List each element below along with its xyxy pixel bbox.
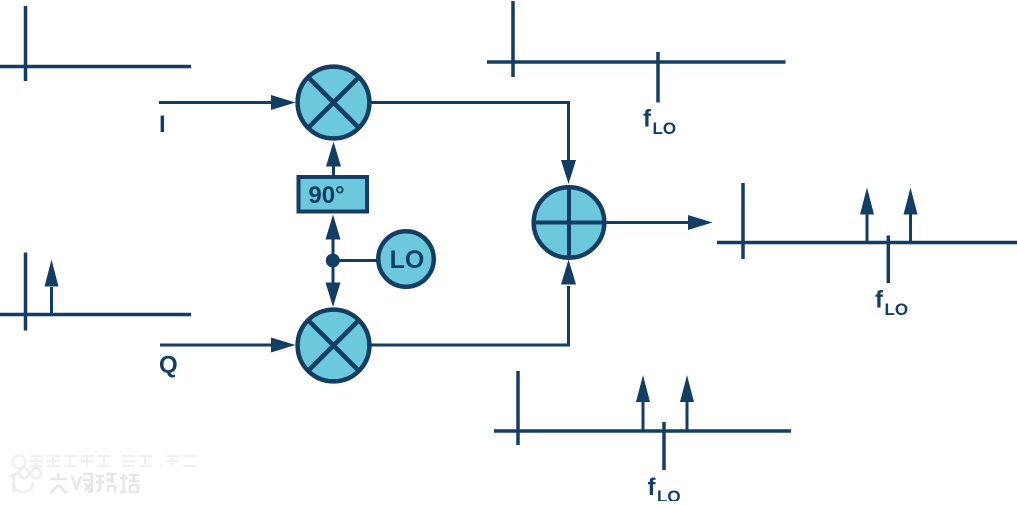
wire: junction to 90-box stem — [332, 239, 335, 261]
arrowhead: up into summer bottom — [561, 260, 576, 285]
arrowhead: down into mixer M2 — [326, 283, 341, 308]
svg-text:LO: LO — [653, 119, 677, 138]
arrowhead: up into 90-box — [326, 215, 341, 240]
summer S1 — [534, 187, 605, 258]
spectrum (top-middle) horizontal axis — [487, 60, 786, 64]
spectrum axes: LO spectrum (top-middle), vertical axis — [511, 1, 515, 77]
svg-text:90°: 90° — [308, 182, 344, 209]
wire: Q input — [160, 344, 273, 347]
watermark brand text — [50, 473, 139, 493]
spectrum axes: Q-input baseband (bottom-left), vertical axis — [24, 253, 28, 331]
oscillator LO — [378, 231, 434, 287]
impulse arrow (bottom-left) — [50, 287, 53, 315]
spectrum (bottom-middle) vertical axis — [516, 371, 520, 445]
watermark logo — [10, 468, 41, 492]
wire: M2 output to summer — [369, 286, 569, 345]
svg-text:f: f — [648, 474, 657, 501]
wire: M1 output to summer — [369, 103, 569, 161]
svg-text:LO: LO — [885, 300, 909, 319]
spectrum (bottom-left) horizontal axis — [0, 313, 191, 317]
wire: I input — [159, 101, 273, 104]
arrowhead: I input into mixer M1 — [271, 95, 296, 110]
spectrum axes: I-input baseband (top-left), vertical axis — [24, 6, 28, 81]
spectrum axes: RF output (right), horizontal axis — [717, 241, 1017, 245]
svg-text:I: I — [159, 111, 166, 138]
impulse arrow 2 (right) — [909, 214, 912, 243]
svg-text:LO: LO — [657, 487, 681, 501]
spectrum axes: (bottom-middle), horizontal axis — [494, 429, 791, 433]
svg-text:f: f — [643, 106, 652, 133]
junction dot (LO split node) — [326, 254, 340, 268]
wire: summer output — [604, 221, 689, 224]
wire: junction to M2 stem — [332, 261, 335, 284]
arrowhead: down into summer top — [561, 160, 576, 184]
spectrum axes: I-input baseband (top-left), horizontal axis — [0, 65, 191, 69]
tick fLO (top-middle) — [656, 52, 660, 103]
arrowhead: output — [688, 215, 713, 230]
mixer M2 (Q-channel) — [298, 310, 370, 382]
svg-text:f: f — [875, 287, 884, 314]
impulse arrow 1 (bottom-middle) — [642, 401, 645, 431]
svg-text:LO: LO — [390, 246, 425, 274]
arrowhead: Q input into mixer M2 — [271, 338, 296, 353]
impulse arrow 2 (bottom-middle) — [686, 401, 689, 431]
wire: junction to LO — [333, 259, 377, 262]
wire: 90-box to M1 stem — [332, 166, 335, 176]
tick fLO (right) — [887, 236, 891, 284]
arrowhead: up into mixer M1 — [326, 142, 341, 167]
phase shifter box 90 — [299, 177, 368, 212]
impulse arrow 1 (right) — [866, 214, 869, 243]
watermark faint text line — [13, 456, 197, 469]
svg-text:Q: Q — [159, 352, 178, 379]
spectrum (right) vertical axis — [741, 183, 745, 259]
tick fLO (bottom-middle) — [662, 422, 666, 470]
mixer M1 (I-channel) — [298, 67, 370, 139]
